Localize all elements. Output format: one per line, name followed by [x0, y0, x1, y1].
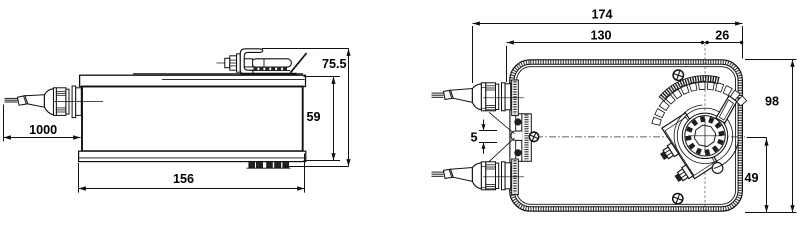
- svg-text:156: 156: [173, 172, 194, 186]
- cable ferrule: [18, 96, 28, 106]
- clamp bolt B1: [658, 143, 678, 162]
- cable gland top: [432, 92, 444, 94]
- svg-text:1000: 1000: [29, 123, 57, 137]
- screw top: [672, 69, 685, 82]
- svg-text:49: 49: [744, 171, 758, 185]
- vertical centerline through shaft: [704, 44, 706, 214]
- gland ring: [54, 88, 57, 116]
- dimension 174: [473, 23, 743, 25]
- position scale segments: [652, 81, 747, 125]
- bracket tab: [511, 131, 522, 140]
- shaft clamp assembly on top: [217, 62, 227, 64]
- clamp base plate: [240, 73, 296, 75]
- position pointer (diagonal): [290, 53, 306, 73]
- anti-rotation bracket: [522, 114, 532, 162]
- svg-text:174: 174: [591, 7, 612, 21]
- clamp U-strap: [240, 49, 262, 74]
- clamp teeth: [254, 67, 258, 71]
- dimension 49: [747, 137, 767, 139]
- clamp bracket (rotated square): [662, 113, 718, 179]
- body gasket band: [512, 62, 741, 209]
- hub outer circles: [677, 108, 732, 163]
- gland plate: [72, 86, 76, 118]
- actuator body: [82, 87, 303, 152]
- gland nut: [56, 88, 66, 116]
- dimension 5: [479, 130, 497, 132]
- bottom extension line: [745, 212, 797, 214]
- clamp slot bar: [252, 59, 292, 67]
- gland bell: [44, 89, 53, 115]
- body outer outline: [510, 60, 743, 211]
- top cover plate: [80, 75, 306, 86]
- gland centerline: [54, 101, 103, 103]
- dimension 26: [705, 42, 743, 44]
- dimension 156: [78, 163, 80, 193]
- top mounting bar: [133, 73, 303, 75]
- gland ring 2: [66, 89, 69, 114]
- cable wires (left): [5, 97, 18, 99]
- hub crosshair: [688, 135, 722, 137]
- hub shaft hole (octagon): [694, 125, 715, 146]
- svg-text:98: 98: [765, 94, 779, 108]
- knurled indicator strip: [661, 79, 718, 99]
- svg-text:59: 59: [306, 110, 320, 124]
- center screw with cross: [528, 131, 540, 143]
- clamp bolt B2: [673, 165, 693, 184]
- pointer needle: [716, 96, 737, 123]
- cable gland bottom: [432, 171, 444, 173]
- bottom flange: [79, 151, 306, 161]
- dimension 130: [507, 42, 706, 44]
- bracket V-edges: [489, 112, 515, 134]
- dimension 75.5: [262, 48, 349, 50]
- svg-text:75.5: 75.5: [322, 57, 347, 71]
- clamp bolt: [225, 58, 230, 67]
- svg-text:130: 130: [590, 28, 611, 42]
- clamp lug: [712, 163, 723, 174]
- left edge mask between glands: [508, 108, 521, 167]
- dimension 98: [745, 59, 797, 61]
- body inner outline: [514, 64, 738, 207]
- horizontal centerline: [536, 136, 745, 138]
- svg-text:26: 26: [715, 28, 729, 42]
- svg-text:5: 5: [470, 131, 477, 145]
- gland locknut: [76, 88, 82, 116]
- dimension 1000: [3, 105, 5, 142]
- cable cone: [25, 95, 44, 107]
- bracket screws (dark): [514, 118, 521, 125]
- dimension 59: [304, 76, 341, 78]
- clamp inner block: [244, 59, 252, 67]
- screw bottom: [671, 192, 684, 205]
- terminal blocks at bottom: [249, 162, 255, 168]
- hub spline teeth: [685, 116, 724, 155]
- clamp washer: [237, 54, 241, 72]
